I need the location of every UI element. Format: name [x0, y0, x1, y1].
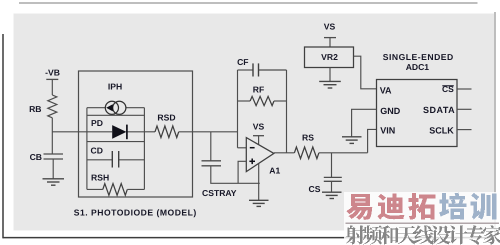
- VS supply bar: [324, 37, 336, 39]
- page frame top line: [19, 2, 478, 4]
- wire SCLK stub: [457, 129, 472, 131]
- wire non-inverting input: [238, 161, 246, 183]
- svg-text:SCLK: SCLK: [429, 126, 454, 136]
- svg-text:SINGLE-ENDED: SINGLE-ENDED: [383, 52, 454, 62]
- voltage reference VR2: [305, 47, 354, 68]
- inner model divider PD/CD: [87, 141, 144, 143]
- wire SDATA stub: [457, 108, 472, 110]
- ADC1 box: [377, 80, 458, 147]
- svg-text:-VB: -VB: [45, 68, 60, 78]
- wire CB to ground: [52, 159, 54, 179]
- ground under VR2: [319, 81, 341, 88]
- svg-text:VA: VA: [380, 85, 392, 95]
- wire riser to VIN: [368, 129, 377, 152]
- svg-text:RSD: RSD: [157, 113, 175, 123]
- wire to inverting input: [238, 147, 247, 149]
- wire IPH branch: [87, 107, 105, 109]
- watermark backdrop: [344, 192, 500, 245]
- svg-text:VS: VS: [324, 21, 336, 31]
- svg-text:CD: CD: [91, 145, 103, 155]
- inner model top divider: [87, 114, 144, 116]
- wire op-amp V- to ground: [258, 163, 260, 200]
- resistor RSD: [144, 131, 155, 133]
- resistor RSH: [87, 188, 103, 190]
- capacitor CB: [44, 153, 64, 155]
- watermark underline: [346, 222, 500, 224]
- photodiode model box S1: [79, 71, 193, 197]
- watermark 射频和天线设计专家: [346, 225, 366, 244]
- capacitor CF: [238, 69, 254, 71]
- wire feedback left riser: [237, 70, 239, 148]
- svg-text:IPH: IPH: [108, 82, 122, 92]
- svg-text:A1: A1: [269, 166, 280, 176]
- wire RB to CB (node at y=131.8): [51, 118, 53, 154]
- svg-text:CF: CF: [237, 57, 248, 67]
- wire PD branch: [87, 131, 112, 133]
- svg-text:CB: CB: [30, 152, 42, 162]
- svg-text:VR2: VR2: [321, 52, 338, 62]
- svg-text:CSTRAY: CSTRAY: [202, 188, 237, 198]
- svg-text:ADC1: ADC1: [406, 62, 430, 72]
- wire op-amp output: [274, 152, 295, 154]
- wire VS to op-amp: [258, 136, 260, 146]
- resistor RB: [48, 95, 57, 118]
- page frame right line: [494, 12, 496, 237]
- svg-text:VIN: VIN: [380, 126, 395, 136]
- capacitor CSTRAY: [202, 160, 222, 162]
- page frame bottom line: [3, 237, 495, 239]
- wire CSTRAY to ground rail: [211, 166, 260, 184]
- ground under CS: [322, 192, 342, 198]
- inner model left rail: [86, 108, 88, 190]
- wire CS tap: [331, 153, 333, 178]
- wire node to photodiode box: [52, 131, 87, 133]
- resistor RF: [238, 100, 251, 102]
- svg-text:VS: VS: [253, 121, 265, 131]
- ground under op-amp: [249, 200, 269, 206]
- svg-text:GND: GND: [380, 106, 401, 116]
- wire RSD to feedback node: [179, 131, 238, 133]
- capacitor CD: [87, 159, 112, 161]
- wire CSTRAY tap: [210, 132, 212, 161]
- resistor RS: [294, 147, 319, 159]
- photodiode PD: [112, 125, 126, 139]
- wire -VB bar to RB: [51, 79, 53, 95]
- wire VR2 to ground: [329, 68, 331, 82]
- wire VS to VR2: [329, 38, 331, 47]
- wire feedback right riser: [286, 70, 288, 153]
- page frame left line: [2, 34, 4, 238]
- wire RS to VIN riser: [319, 152, 368, 154]
- inner model right rail: [143, 108, 145, 190]
- svg-text:RF: RF: [253, 85, 264, 95]
- svg-text:CS: CS: [309, 184, 321, 194]
- wire CS stub: [457, 88, 472, 90]
- wire CS to ground: [331, 181, 333, 192]
- VS supply bar: [253, 135, 264, 137]
- ground under GND pin: [342, 137, 362, 144]
- svg-text:S1. PHOTODIODE (MODEL): S1. PHOTODIODE (MODEL): [74, 207, 197, 217]
- wire VR2 to VA: [354, 56, 377, 89]
- svg-text:RS: RS: [302, 133, 314, 143]
- -VB supply bar: [46, 78, 58, 80]
- wire GND pin to ground: [352, 109, 377, 136]
- svg-text:RB: RB: [29, 104, 41, 114]
- capacitor CS: [324, 176, 342, 178]
- svg-text:SDATA: SDATA: [423, 105, 455, 115]
- watermark 易迪拓培训: [346, 194, 372, 220]
- op-amp A1: [246, 138, 274, 172]
- ground under CB: [43, 179, 65, 185]
- svg-text:RSH: RSH: [91, 172, 109, 182]
- svg-text:PD: PD: [91, 118, 103, 128]
- current source IPH: [105, 101, 118, 114]
